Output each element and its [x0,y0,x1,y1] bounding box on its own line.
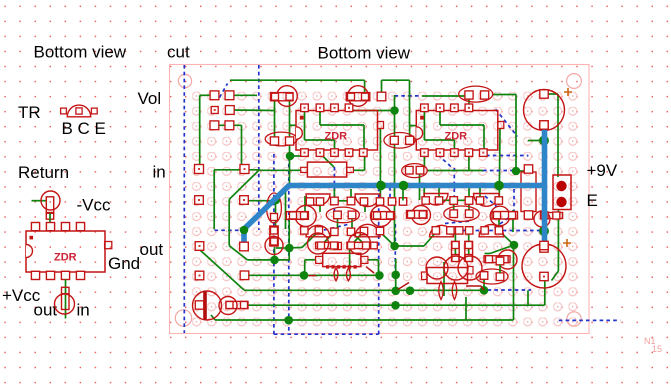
junction bus c [494,181,504,191]
return via [41,191,60,210]
cut line V1 [183,65,185,333]
resistor VR0 [270,226,278,246]
transistor Q3 [306,225,330,237]
pads mid right [450,197,458,205]
junction J275a [300,271,309,280]
wire dash to ellipse E3 [422,95,466,97]
airwire diag middle [324,224,350,230]
airwire diag top-left [220,84,228,98]
wire via to IC [49,213,51,223]
wire x513 down [513,245,515,320]
junction J248 [285,244,294,253]
capacitor C2 [522,244,566,288]
wire connector to junction [557,210,559,272]
IC relay K0 [307,162,346,177]
red wire stub [309,275,317,277]
junction J171 [512,167,521,176]
circle QV2 [265,237,283,255]
svg-text:in: in [77,301,90,320]
capacitor E2 [384,133,415,149]
svg-text:in: in [153,163,166,182]
circle QB1 [444,256,468,280]
airwire H6 y305 [484,304,541,306]
junction J110 [390,106,399,115]
IC relay K2 [427,268,468,284]
cut line H bottom [274,333,379,335]
wire y305 [248,304,545,306]
wire diag relay2 [490,245,514,254]
wire E3 to IC2 [468,98,470,104]
bottom via [55,294,75,314]
pads row 246 [195,242,204,251]
resistor RR0 [407,211,428,219]
wire diag to y290 [200,250,244,290]
airwire H3 [486,155,528,157]
airwire H2 [395,95,422,97]
capacitor E6 [476,269,508,284]
capacitor E1 [265,132,297,146]
junction bus b [399,181,409,191]
junction J260 [270,256,279,265]
pad bus left [240,242,249,251]
red wire relay2 [466,285,481,287]
transistor QL2 circle [370,206,391,227]
via bottom-right [567,312,581,326]
wire pads TL [200,94,210,96]
wire to return via [32,200,47,202]
resistor R3 [226,301,248,308]
via top-left [178,74,191,87]
airwire V10 [394,224,396,279]
wire IC1 to junction [349,110,395,112]
bus vertical [542,125,548,246]
airwire H4 [462,230,541,232]
junction J200 [272,196,281,205]
airwire V9 [333,167,335,222]
capacitor E5 [444,206,479,221]
resistor R1 [277,86,298,107]
transistor Q7 [430,225,454,237]
op-amp U1 ZDR [296,111,378,151]
transistor ellipse QV [267,193,282,223]
cut line V5 [378,181,380,334]
svg-text:15: 15 [652,344,662,354]
pads mid bottom right [456,227,463,234]
via bottom-left [175,310,191,326]
capacitor C4 [219,297,237,315]
wire resistor loop [381,80,383,93]
pad bus bottom [540,241,548,249]
svg-text:Vol: Vol [138,89,162,108]
svg-text:Return: Return [18,163,69,182]
junction J156 [286,152,295,161]
cut line V4 [288,157,290,334]
wire R1 to ellipse [274,101,276,142]
via top-right [567,74,582,89]
resistor RH4 [498,250,517,269]
svg-text:-Vcc: -Vcc [77,196,112,215]
junction bus a [376,181,386,191]
svg-text:+9V: +9V [587,161,618,180]
pads row 275 [195,271,204,280]
capacitor E3 [459,86,493,102]
airwire H5 y290 [488,289,531,291]
wire y260 [248,259,290,261]
wire IC1 tab down [379,128,381,197]
hole grid [190,90,580,328]
junction J275c [391,271,400,280]
resistor RB [349,233,371,255]
svg-text:Gnd: Gnd [108,254,140,273]
junction J140 [539,136,549,146]
pads top-left block [210,91,219,100]
transistor QL1 circle [295,206,316,227]
pads row 169 [195,165,204,174]
leaf D3 [439,282,444,300]
airwire H7 bottom right [559,319,620,321]
resistor R2 [348,86,369,107]
svg-text:TR: TR [18,103,41,122]
IC relay K1 [323,253,361,266]
wires left cluster [338,200,347,202]
pads mid [331,197,339,205]
resistor RL2 [372,212,395,220]
pads row 200 [195,196,204,205]
capacitor EX [402,164,428,178]
resistor RL1 [286,212,308,220]
pad mid VR row [334,242,341,249]
resistor VR4 [465,241,473,261]
airwire V7+diag [513,189,515,214]
circle QB2 [458,256,482,280]
junction J231 [539,226,549,236]
capacitor C1 [524,90,565,131]
transistor Q4 [355,224,380,237]
junction bus corner [240,226,249,235]
wire cap1 to connector [547,93,558,95]
transistor Q2 [355,194,380,207]
wire IC2 tab down [498,128,501,197]
op-amp U2 ZDR [416,111,498,151]
wires right cluster [441,199,467,201]
airwire V6 [438,155,452,168]
resistor RA [308,233,329,254]
pad bus top [540,121,548,129]
wires IC2 [439,106,441,125]
transistor Q6 [474,194,500,207]
junction J246 [390,242,399,251]
plus mark C1 [564,88,572,96]
op-amp legend ZDR IC [26,231,105,272]
wire IC to bottom via [65,280,67,319]
svg-text:out: out [140,240,164,259]
pads mid bottom [331,228,338,235]
junction J305 [391,301,400,310]
junction J320 [284,316,293,325]
junction J290a [406,286,415,295]
board outline [170,65,590,334]
svg-text:B C E: B C E [62,119,106,138]
svg-text:ZDR: ZDR [54,252,77,264]
wire E3 to R5 [492,94,516,96]
junction J291a [391,287,400,296]
leaf D1 [334,268,338,281]
resistor R5 vertical [521,172,536,212]
svg-text:Bottom view: Bottom view [318,44,411,63]
svg-text:ZDR: ZDR [325,131,348,143]
pad x403 [399,198,406,205]
connector X1 [553,175,571,210]
wire y320 [211,315,215,320]
plus mark C2 [563,239,571,247]
leaf D2 [346,268,350,281]
circle QB0 [426,257,448,279]
transistor Q1 [306,194,330,206]
junction J245 [510,241,519,250]
transistor TR symbol [67,105,90,117]
resistor RR1 [492,212,518,220]
cut line V3 [273,154,275,334]
junction J275b [375,271,384,280]
wire y290 [244,289,484,291]
svg-text:E: E [587,191,598,210]
bus trace blue [244,186,545,248]
svg-text:Bottom view: Bottom view [34,43,127,62]
cut line V2 [258,65,260,230]
transistor Q8 [479,225,504,237]
resistor VR3 [452,241,460,261]
airwire diag IC2 [496,109,518,136]
leaf D4 [452,282,457,300]
wire relay right tab [368,259,379,261]
pad x392 [388,198,395,205]
wires inside IC1 [319,106,321,125]
wire top long [230,79,365,81]
transistor Q5 [424,194,448,206]
resistor R6 [534,211,550,227]
svg-text:cut: cut [167,43,190,62]
svg-text:ZDR: ZDR [445,131,468,143]
wire via to bus junction [528,140,542,142]
airwire H1 [215,229,245,231]
capacitor CL ellipse [326,207,359,223]
transistor QR0 circle [412,206,431,225]
wire pads row169 [214,169,259,171]
capacitor C3 [193,291,222,320]
wire y275 [245,274,379,276]
transistor QR1 circle [490,206,510,226]
junction J290b [480,286,489,295]
